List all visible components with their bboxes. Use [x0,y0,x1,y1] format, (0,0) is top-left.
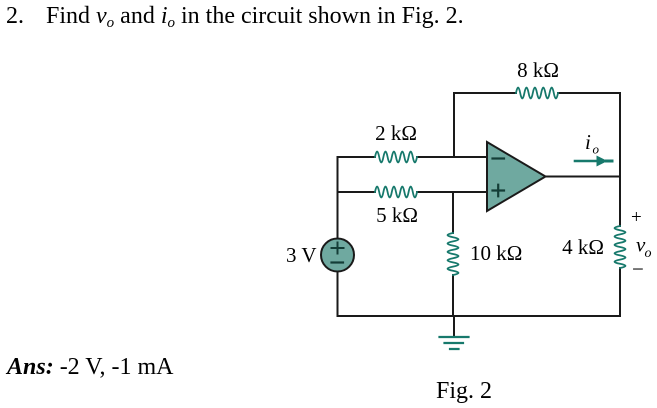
figure caption [436,378,492,405]
svg-text:5 kΩ: 5 kΩ [376,203,418,227]
op-amp U1 triangle [487,142,546,211]
svg-text:−: − [632,257,644,281]
wire: feedback vertical drop to minus node [453,93,455,157]
ground bars [440,337,469,349]
wire: right rail top (feedback corner down to output node) [619,93,621,177]
source plus sign [332,243,344,254]
wire: minus-input wire (left rail to op-amp, 2k in series) [338,156,488,158]
wire: left rail from 5k wire down to source top [337,192,339,239]
svg-text:o: o [645,246,652,261]
svg-text:o: o [593,142,600,157]
source minus sign [332,261,344,263]
svg-text:10 kΩ: 10 kΩ [470,241,522,265]
svg-text:i: i [585,130,591,154]
wire: left rail upper (2k wire level to 5k wire level) [337,157,339,192]
svg-text:3 V: 3 V [286,243,317,267]
svg-text:4 kΩ: 4 kΩ [562,235,604,259]
resistor 10k zigzag [448,233,459,275]
wire: left rail from source bottom to bottom rail [337,272,339,317]
wire: plus-input wire (left rail to op-amp, 5k in series) [338,191,488,193]
wire: op-amp output to right rail [545,176,620,178]
svg-text:8 kΩ: 8 kΩ [517,58,559,82]
op-amp minus input sign [493,157,505,159]
wire: plus node down to 10k [452,192,454,233]
voltage source 3V circle [321,239,354,272]
svg-text:+: + [631,207,642,228]
resistor 5k zigzag [375,187,417,198]
wire: right rail output node down to 4k [619,177,621,227]
resistor 4k zigzag [615,226,626,268]
wire: bottom rail [338,315,621,317]
ground stub [453,316,455,337]
wire: 10k bottom to bottom rail [452,275,454,316]
current io arrow [575,160,598,163]
svg-text:2 kΩ: 2 kΩ [375,121,417,145]
wire: feedback top run (8k in series) [454,92,620,94]
resistor 8k zigzag [516,88,558,99]
title text: problem statement [6,3,464,30]
answer text [7,354,173,381]
wire: 4k bottom to bottom rail [619,268,621,316]
resistor 2k zigzag [375,152,417,163]
op-amp plus input sign [493,185,505,197]
